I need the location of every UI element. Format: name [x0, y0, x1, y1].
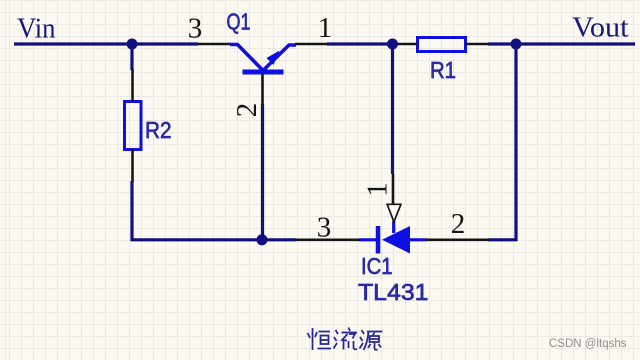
char 恒: [312, 328, 314, 350]
resistor R1: [418, 38, 466, 52]
pin top of R2: [131, 69, 134, 102]
pin 1 of IC1 (black) with input arrow and rotated number: [392, 174, 395, 204]
pin 3 of IC1 (black) with number: [295, 239, 360, 242]
svg-text:1: 1: [361, 182, 393, 197]
svg-text:TL431: TL431: [358, 279, 429, 305]
node D junction dot: [257, 234, 268, 245]
svg-text:Vout: Vout: [572, 13, 629, 44]
svg-text:3: 3: [188, 13, 203, 45]
pin 1 of Q1 (black) with number: [295, 43, 328, 46]
emitter arrowhead: [267, 51, 280, 66]
pin 2 of IC1 (black) with number: [426, 239, 489, 242]
collector stub and diagonal (left): [230, 45, 263, 71]
wire Q1 emitter branch down to node D: [261, 104, 264, 240]
wire from R2 bottom to bottom rail corner: [132, 181, 262, 240]
char 流: [336, 330, 339, 334]
pin right of R1: [466, 43, 489, 46]
svg-text:2: 2: [451, 208, 466, 240]
svg-text:Vin: Vin: [17, 14, 56, 45]
base bar: [243, 70, 284, 75]
pin bottom of R2: [131, 149, 134, 182]
svg-text:Q1: Q1: [227, 9, 251, 35]
svg-text:2: 2: [231, 103, 263, 118]
resistor R2: [125, 102, 142, 150]
node A junction dot: [127, 39, 138, 50]
wire top rail left (Vin to Q1 base pin): [14, 42, 198, 45]
transistor Q1 symbol: [230, 45, 296, 73]
svg-text:CSDN @ltqshs: CSDN @ltqshs: [549, 338, 627, 350]
svg-text:1: 1: [318, 12, 333, 44]
svg-text:IC1: IC1: [361, 253, 393, 279]
anode triangle: [382, 226, 410, 254]
wire top rail right of R1 to node C: [488, 42, 518, 45]
wire top rail node C to Vout: [514, 42, 635, 45]
wire node B down to IC1 ref pin: [391, 44, 394, 174]
svg-text:3: 3: [317, 212, 332, 244]
reference stub: [392, 221, 395, 233]
wire node D to IC1 pin3: [262, 238, 296, 241]
char 源: [362, 330, 365, 334]
emitter diagonal and stub (right) with arrow: [263, 45, 296, 71]
wire top rail middle (Q1 pin1 to node B): [327, 42, 397, 45]
wire node C down to bottom right corner and left to IC1 pin2: [488, 44, 516, 240]
node C junction dot: [511, 39, 522, 50]
IC1 TL431 symbol: [359, 221, 427, 254]
svg-text:R2: R2: [145, 117, 172, 143]
svg-text:R1: R1: [430, 57, 456, 83]
node B junction dot: [387, 39, 398, 50]
pin 3 of Q1 (black) with number: [197, 43, 231, 46]
title 恒流源 (hand drawn strokes): [308, 328, 383, 351]
wire left branch down from node A to R2: [130, 44, 133, 70]
cathode stub: [359, 238, 377, 241]
anode stub: [409, 238, 427, 241]
pin left of R1: [396, 43, 417, 46]
cathode bar: [376, 226, 381, 254]
pin 2 of Q1 (black) with rotated number: [261, 73, 264, 105]
